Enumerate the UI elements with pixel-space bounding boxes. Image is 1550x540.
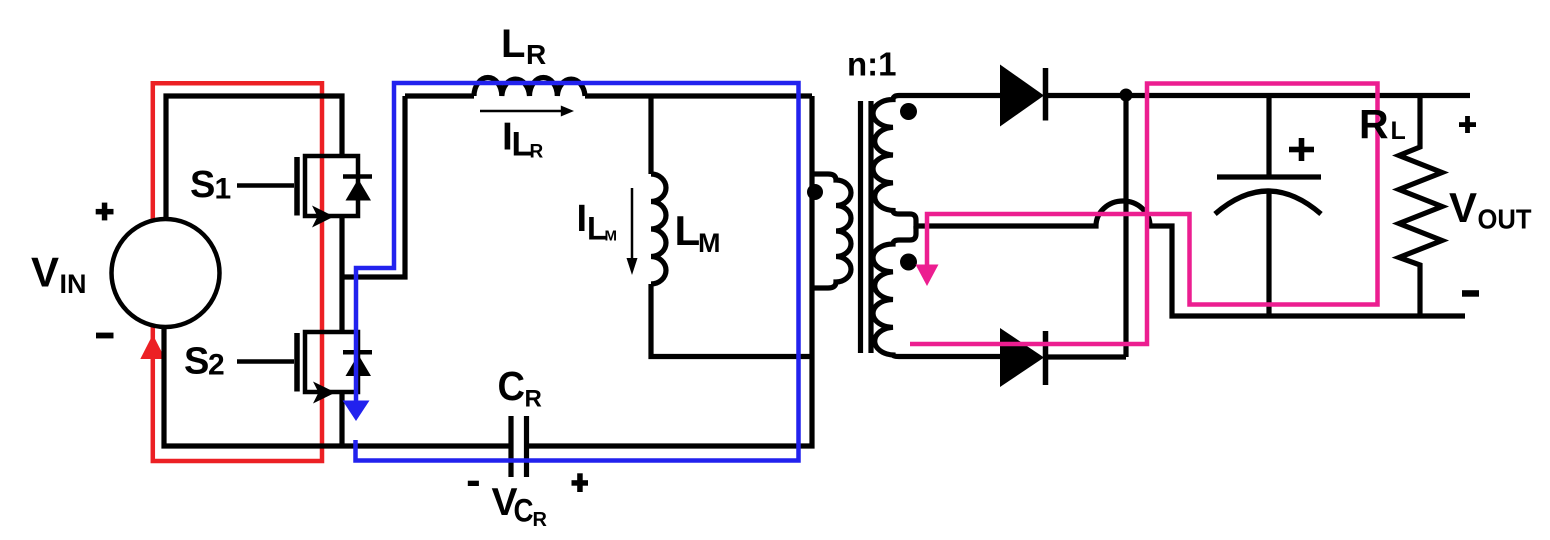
svg-text:V: V	[31, 249, 59, 296]
svg-text:L: L	[675, 207, 701, 254]
svg-text:S: S	[184, 341, 209, 383]
svg-text:V: V	[1449, 184, 1477, 231]
svg-text:M: M	[605, 228, 618, 245]
svg-text:L: L	[501, 22, 525, 66]
svg-text:L: L	[1391, 117, 1406, 145]
svg-text:I: I	[577, 198, 588, 240]
svg-text:n:1: n:1	[847, 46, 897, 83]
svg-text:R: R	[525, 386, 542, 413]
svg-text:S: S	[190, 164, 215, 206]
svg-text:R: R	[530, 142, 544, 163]
svg-text:1: 1	[215, 173, 232, 206]
svg-text:2: 2	[208, 349, 225, 382]
svg-text:R: R	[1359, 101, 1389, 147]
svg-text:OUT: OUT	[1478, 204, 1532, 235]
svg-text:M: M	[698, 228, 721, 258]
svg-text:IN: IN	[60, 269, 87, 299]
svg-text:C: C	[514, 493, 534, 529]
svg-text:R: R	[533, 509, 548, 531]
svg-text:R: R	[526, 39, 546, 70]
svg-text:C: C	[498, 363, 526, 409]
